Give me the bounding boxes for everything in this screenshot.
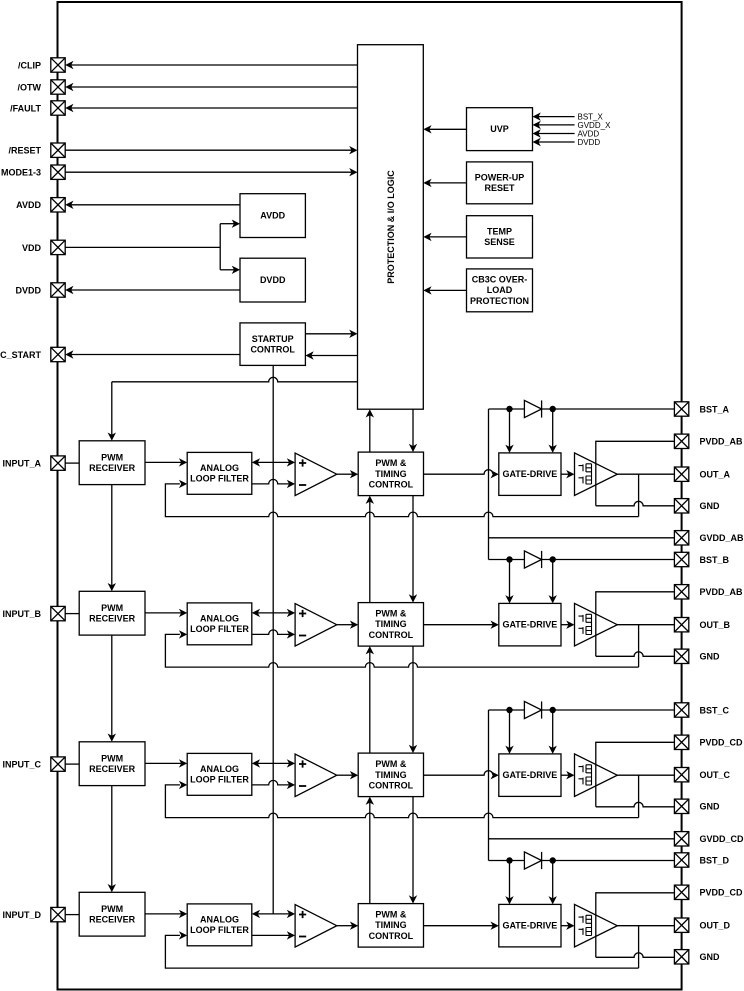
junction dot BST_D left <box>506 857 512 863</box>
wire PWM receiver chain A to next channel <box>111 485 113 586</box>
wire bootstrap vertical CD <box>488 710 490 861</box>
wire PWM RECEIVER C to ANALOG LOOP FILTER C <box>145 762 181 764</box>
wire STARTUP CONTROL to PROTECTION <box>305 333 351 335</box>
wire UVP input BST_X <box>538 116 574 118</box>
transistor high-side D <box>579 915 592 923</box>
svg-text:TEMP: TEMP <box>487 227 512 237</box>
svg-text:CONTROL: CONTROL <box>250 344 295 354</box>
block PWM RECEIVER D <box>79 892 145 936</box>
svg-text:PWM &: PWM & <box>375 458 406 468</box>
svg-text:RESET: RESET <box>484 183 515 193</box>
block PWM & TIMING CONTROL B <box>358 603 423 647</box>
wire power stage A output to OUT_A <box>617 473 674 475</box>
wire OUT_C feedback drop <box>638 775 640 817</box>
pin /CLIP <box>51 58 65 72</box>
wire power stage C output to OUT_C <box>617 774 674 776</box>
wire AVDD regulator output to AVDD pin <box>71 204 240 206</box>
svg-text:PWM &: PWM & <box>375 609 406 619</box>
svg-text:LOOP FILTER: LOOP FILTER <box>190 474 249 484</box>
wire BST_C to GATE-DRIVE C left <box>509 710 511 748</box>
pin C_START <box>51 347 65 361</box>
block DVDD regulator <box>240 258 305 302</box>
svg-text:TIMING: TIMING <box>375 619 407 629</box>
wire timing bus up from PWM &amp; TIMING CONTROL A <box>369 415 371 452</box>
wire GVDD_CD line <box>489 838 675 840</box>
wire BST_B to GATE-DRIVE B left <box>509 560 511 598</box>
pin BST_B <box>674 552 688 566</box>
svg-text:OUT_D: OUT_D <box>700 921 731 931</box>
svg-text:DVDD: DVDD <box>578 138 601 147</box>
wire timing bus down to PWM &amp; TIMING CONTROL B <box>412 496 414 597</box>
svg-text:LOOP FILTER: LOOP FILTER <box>190 925 249 935</box>
pin INPUT_D <box>51 907 65 921</box>
block ANALOG LOOP FILTER B <box>187 603 252 645</box>
pin OUT_C <box>674 768 688 782</box>
wire ANALOG LOOP FILTER D to comparator plus input <box>258 913 290 915</box>
svg-text:/FAULT: /FAULT <box>10 103 41 113</box>
pin /RESET <box>51 143 65 157</box>
svg-text:CB3C OVER-: CB3C OVER- <box>472 275 528 285</box>
diode bootstrap A <box>524 400 541 417</box>
wire OUT_D feedback drop <box>638 926 640 968</box>
wire ANALOG LOOP FILTER B to comparator minus input <box>252 630 289 635</box>
svg-text:OUT_C: OUT_C <box>700 770 731 780</box>
wire OUT_B feedback drop <box>638 625 640 667</box>
junction dot BST_A left <box>506 406 512 412</box>
wire ANALOG LOOP FILTER C to comparator plus input <box>258 762 290 764</box>
wire /RESET input to PROTECTION <box>65 149 352 151</box>
svg-text:ANALOG: ANALOG <box>200 764 239 774</box>
comparator UC <box>295 754 337 797</box>
svg-text:POWER-UP: POWER-UP <box>475 173 525 183</box>
wire UVP input DVDD <box>538 141 574 143</box>
pin INPUT_B <box>51 606 65 620</box>
wire comparator C to PWM &amp; TIMING CONTROL C <box>337 774 353 776</box>
transistor high-side A <box>579 464 592 472</box>
wire half-bridge link A <box>591 464 593 484</box>
pin AVDD <box>51 198 65 212</box>
pin PVDD_CD <box>674 735 688 749</box>
wire BST_D line <box>489 860 675 862</box>
svg-text:PWM: PWM <box>101 603 123 613</box>
block TEMP SENSE <box>467 216 533 258</box>
svg-text:PROTECTION: PROTECTION <box>470 296 529 306</box>
wire timing bus up from PWM &amp; TIMING CONTROL B <box>369 501 371 602</box>
block ANALOG LOOP FILTER C <box>187 753 252 795</box>
wire MODE1-3 input to PROTECTION <box>65 171 352 173</box>
svg-text:CONTROL: CONTROL <box>369 931 414 941</box>
junction dot BST_D right <box>550 857 556 863</box>
svg-text:INPUT_B: INPUT_B <box>2 609 41 619</box>
block ANALOG LOOP FILTER D <box>187 904 252 946</box>
svg-text:BST_B: BST_B <box>700 555 730 565</box>
svg-text:PVDD_AB: PVDD_AB <box>700 437 744 447</box>
block PWM RECEIVER B <box>79 591 145 635</box>
svg-text:TIMING: TIMING <box>375 920 407 930</box>
wire PWM receiver chain drop channel A <box>111 382 113 435</box>
wire PROTECTION to STARTUP CONTROL <box>311 355 357 357</box>
wire INPUT_C pin to PWM RECEIVER C <box>65 763 79 765</box>
wire OUT_A feedback drop <box>638 474 640 516</box>
svg-text:AVDD: AVDD <box>260 211 285 221</box>
wire comparator A to PWM &amp; TIMING CONTROL A <box>337 473 353 475</box>
wire UVP input GVDD_X <box>538 124 574 126</box>
wire PWM &amp; TIMING CONTROL D to GATE-DRIVE D <box>424 925 494 927</box>
wire ANALOG LOOP FILTER C to comparator minus input <box>252 780 289 785</box>
wire GND rail D <box>596 953 675 957</box>
svg-text:INPUT_C: INPUT_C <box>2 760 41 770</box>
wire feedback B to loop filter <box>165 634 638 667</box>
svg-text:GND: GND <box>700 802 721 812</box>
pin INPUT_A <box>51 456 65 470</box>
wire UVP to PROTECTION <box>429 128 466 130</box>
pin PVDD_AB <box>674 585 688 599</box>
wire STARTUP CONTROL to C_START pin <box>71 354 240 356</box>
svg-text:GATE-DRIVE: GATE-DRIVE <box>502 469 557 479</box>
svg-text:DVDD: DVDD <box>260 275 286 285</box>
wire BST_D to GATE-DRIVE D right <box>552 861 554 899</box>
wire TEMP SENSE to PROTECTION <box>429 236 466 238</box>
svg-text:RECEIVER: RECEIVER <box>89 613 136 623</box>
svg-text:LOOP FILTER: LOOP FILTER <box>190 624 249 634</box>
pin DVDD <box>51 283 65 297</box>
wire INPUT_A pin to PWM RECEIVER A <box>65 462 79 464</box>
block PWM RECEIVER A <box>79 441 145 485</box>
wire INPUT_D pin to PWM RECEIVER D <box>65 914 79 916</box>
block STARTUP CONTROL <box>240 323 305 366</box>
svg-text:LOOP FILTER: LOOP FILTER <box>190 775 249 785</box>
svg-text:AVDD: AVDD <box>16 200 41 210</box>
wire bootstrap vertical AB <box>488 409 490 560</box>
svg-text:PVDD_AB: PVDD_AB <box>700 587 744 597</box>
wire PWM receiver chain B to next channel <box>111 635 113 736</box>
svg-text:PWM: PWM <box>101 904 123 914</box>
svg-text:BST_A: BST_A <box>700 404 730 414</box>
wire ANALOG LOOP FILTER D to comparator minus input <box>252 934 289 936</box>
wire half-bridge link B <box>591 614 593 634</box>
wire VDD branch vertical <box>219 224 221 270</box>
pin GVDD_CD <box>674 832 688 846</box>
wire /CLIP output from PROTECTION to pin <box>71 64 358 66</box>
transistor low-side C <box>579 777 592 785</box>
transistor high-side B <box>579 614 592 622</box>
svg-text:/CLIP: /CLIP <box>18 60 41 70</box>
wire VDD pin to supply branch <box>65 246 220 248</box>
wire /OTW output from PROTECTION to pin <box>71 86 358 88</box>
wire GND rail C <box>596 802 675 806</box>
wire /FAULT output from PROTECTION to pin <box>71 107 358 109</box>
wire BST_A line <box>489 408 675 410</box>
block GATE-DRIVE A <box>499 453 561 496</box>
wire VDD branch to AVDD regulator <box>220 223 234 225</box>
svg-text:GND: GND <box>700 952 721 962</box>
wire BST_B to GATE-DRIVE B right <box>552 560 554 598</box>
block AVDD regulator <box>240 194 305 238</box>
wire PVDD rail B <box>596 592 675 657</box>
wire ANALOG LOOP FILTER A to comparator plus input <box>258 461 290 463</box>
pin GND <box>674 799 688 813</box>
wire STARTUP CONTROL bus down to channel D <box>272 365 274 914</box>
wire timing bus up from PWM &amp; TIMING CONTROL D <box>369 802 371 903</box>
wire comparator D to PWM &amp; TIMING CONTROL D <box>337 925 353 927</box>
wire ANALOG LOOP FILTER B to comparator plus input <box>258 612 290 614</box>
comparator UA <box>295 453 337 496</box>
diode bootstrap D <box>524 852 541 869</box>
pin GND <box>674 499 688 513</box>
wire CB3C to PROTECTION <box>429 289 466 291</box>
svg-text:PWM: PWM <box>101 753 123 763</box>
svg-text:INPUT_D: INPUT_D <box>2 910 41 920</box>
wire power stage D output to OUT_D <box>617 925 674 927</box>
pin OUT_D <box>674 918 688 932</box>
svg-text:RECEIVER: RECEIVER <box>89 914 136 924</box>
pin PVDD_CD <box>674 885 688 899</box>
pin /OTW <box>51 80 65 94</box>
svg-text:CONTROL: CONTROL <box>369 630 414 640</box>
block PWM & TIMING CONTROL A <box>358 452 423 496</box>
svg-text:PWM: PWM <box>101 452 123 462</box>
wire UVP input AVDD <box>538 133 574 135</box>
svg-text:STARTUP: STARTUP <box>252 334 294 344</box>
svg-text:OUT_B: OUT_B <box>700 620 731 630</box>
transistor low-side B <box>579 626 592 634</box>
pin OUT_B <box>674 618 688 632</box>
svg-text:INPUT_A: INPUT_A <box>2 459 41 469</box>
svg-text:GVDD_CD: GVDD_CD <box>700 834 744 844</box>
wire GATE-DRIVE A to power stage A <box>561 473 569 475</box>
svg-text:GATE-DRIVE: GATE-DRIVE <box>502 921 557 931</box>
wire half-bridge link D <box>591 915 593 935</box>
block POWER-UP RESET <box>467 162 533 204</box>
power stage triangle A <box>575 453 618 496</box>
wire GND rail B <box>596 652 675 657</box>
svg-text:SENSE: SENSE <box>484 237 515 247</box>
wire VDD branch to DVDD regulator <box>220 269 234 271</box>
svg-text:PROTECTION & I/O LOGIC: PROTECTION & I/O LOGIC <box>386 170 396 284</box>
svg-text:DVDD: DVDD <box>15 285 41 295</box>
block UVP <box>467 108 533 151</box>
wire power stage B output to OUT_B <box>617 624 674 626</box>
block GATE-DRIVE C <box>499 754 561 797</box>
pin PVDD_AB <box>674 434 688 448</box>
junction dot BST_B left <box>506 556 512 562</box>
block ANALOG LOOP FILTER A <box>187 452 252 494</box>
wire comparator B to PWM &amp; TIMING CONTROL B <box>337 624 353 626</box>
junction dot BST_B right <box>550 556 556 562</box>
pin GVDD_AB <box>674 531 688 545</box>
svg-text:GND: GND <box>700 652 721 662</box>
wire timing bus down to PWM &amp; TIMING CONTROL D <box>412 797 414 898</box>
wire timing bus down to PWM &amp; TIMING CONTROL A <box>412 409 414 446</box>
block PWM RECEIVER C <box>79 742 145 786</box>
wire PVDD rail D <box>596 893 675 958</box>
svg-text:LOAD: LOAD <box>487 285 513 295</box>
svg-text:BST_C: BST_C <box>700 705 730 715</box>
svg-text:/RESET: /RESET <box>8 146 41 156</box>
wire PWM RECEIVER B to ANALOG LOOP FILTER B <box>145 612 181 614</box>
svg-text:GVDD_AB: GVDD_AB <box>700 533 744 543</box>
svg-text:BST_D: BST_D <box>700 855 730 865</box>
svg-text:CONTROL: CONTROL <box>369 780 414 790</box>
comparator UD <box>295 905 337 948</box>
svg-text:C_START: C_START <box>0 350 41 360</box>
wire DVDD regulator output to DVDD pin <box>71 289 240 291</box>
svg-text:GATE-DRIVE: GATE-DRIVE <box>502 620 557 630</box>
svg-text:ANALOG: ANALOG <box>200 463 239 473</box>
wire feedback C to loop filter <box>165 785 638 818</box>
wire GVDD_AB line <box>489 537 675 539</box>
power stage triangle D <box>575 904 618 947</box>
wire PROTECTION to PWM receivers <box>112 377 358 382</box>
svg-text:GND: GND <box>700 501 721 511</box>
wire PWM receiver chain C to next channel <box>111 786 113 887</box>
svg-text:PWM &: PWM & <box>375 910 406 920</box>
svg-text:/OTW: /OTW <box>18 82 42 92</box>
transistor high-side C <box>579 765 592 773</box>
pin BST_A <box>674 402 688 416</box>
transistor low-side D <box>579 927 592 935</box>
wire PWM &amp; TIMING CONTROL A to GATE-DRIVE A <box>424 470 494 474</box>
svg-text:CONTROL: CONTROL <box>369 479 414 489</box>
power stage triangle C <box>575 754 618 797</box>
wire feedback A to loop filter <box>165 484 638 517</box>
wire half-bridge link C <box>591 765 593 785</box>
block CB3C OVERLOAD PROTECTION <box>467 269 533 312</box>
wire timing bus down to PWM &amp; TIMING CONTROL C <box>412 646 414 747</box>
svg-text:RECEIVER: RECEIVER <box>89 764 136 774</box>
svg-text:RECEIVER: RECEIVER <box>89 463 136 473</box>
wire BST_A to GATE-DRIVE A right <box>552 409 554 447</box>
wire timing bus up from PWM &amp; TIMING CONTROL C <box>369 652 371 753</box>
wire INPUT_B pin to PWM RECEIVER B <box>65 613 79 615</box>
wire GATE-DRIVE B to power stage B <box>561 624 569 626</box>
wire BST_D to GATE-DRIVE D left <box>509 861 511 899</box>
pin VDD <box>51 240 65 254</box>
wire PWM &amp; TIMING CONTROL C to GATE-DRIVE C <box>424 771 494 775</box>
wire BST_C line <box>489 709 675 711</box>
block PROTECTION & I/O LOGIC <box>358 45 424 410</box>
wire ANALOG LOOP FILTER A to comparator minus input <box>252 479 289 484</box>
junction dot BST_C right <box>550 707 556 713</box>
pin MODE1-3 <box>51 165 65 179</box>
comparator UB <box>295 604 337 647</box>
wire POWER-UP RESET to PROTECTION <box>429 182 466 184</box>
pin INPUT_C <box>51 757 65 771</box>
diode bootstrap B <box>524 551 541 568</box>
wire GATE-DRIVE D to power stage D <box>561 925 569 927</box>
wire GND rail A <box>596 501 675 505</box>
pin /FAULT <box>51 101 65 115</box>
svg-text:OUT_A: OUT_A <box>700 470 731 480</box>
junction dot BST_C left <box>506 707 512 713</box>
svg-text:GATE-DRIVE: GATE-DRIVE <box>502 770 557 780</box>
transistor low-side A <box>579 476 592 484</box>
wire PWM &amp; TIMING CONTROL B to GATE-DRIVE B <box>424 624 494 626</box>
svg-text:ANALOG: ANALOG <box>200 915 239 925</box>
svg-text:TIMING: TIMING <box>375 770 407 780</box>
wire BST_B line <box>489 559 675 561</box>
pin BST_D <box>674 853 688 867</box>
pin GND <box>674 649 688 663</box>
svg-text:VDD: VDD <box>22 243 42 253</box>
block GATE-DRIVE D <box>499 904 561 947</box>
wire PVDD rail A <box>596 441 675 506</box>
svg-text:ANALOG: ANALOG <box>200 614 239 624</box>
block GATE-DRIVE B <box>499 603 561 646</box>
wire PWM RECEIVER A to ANALOG LOOP FILTER A <box>145 461 181 463</box>
wire PWM RECEIVER D to ANALOG LOOP FILTER D <box>145 913 181 915</box>
wire BST_C to GATE-DRIVE C right <box>552 710 554 748</box>
block PWM & TIMING CONTROL D <box>358 904 423 948</box>
svg-text:MODE1-3: MODE1-3 <box>1 168 41 178</box>
svg-text:PWM &: PWM & <box>375 759 406 769</box>
wire feedback D to loop filter <box>165 935 638 968</box>
pin OUT_A <box>674 467 688 481</box>
pin BST_C <box>674 703 688 717</box>
svg-text:PVDD_CD: PVDD_CD <box>700 738 744 748</box>
svg-text:UVP: UVP <box>490 124 509 134</box>
svg-text:TIMING: TIMING <box>375 469 407 479</box>
wire GATE-DRIVE C to power stage C <box>561 774 569 776</box>
wire PVDD rail C <box>596 742 675 807</box>
wire BST_A to GATE-DRIVE A left <box>509 409 511 447</box>
junction dot BST_A right <box>550 406 556 412</box>
svg-text:PVDD_CD: PVDD_CD <box>700 888 744 898</box>
diode bootstrap C <box>524 701 541 718</box>
power stage triangle B <box>575 603 618 646</box>
block PWM & TIMING CONTROL C <box>358 753 423 797</box>
pin GND <box>674 950 688 964</box>
